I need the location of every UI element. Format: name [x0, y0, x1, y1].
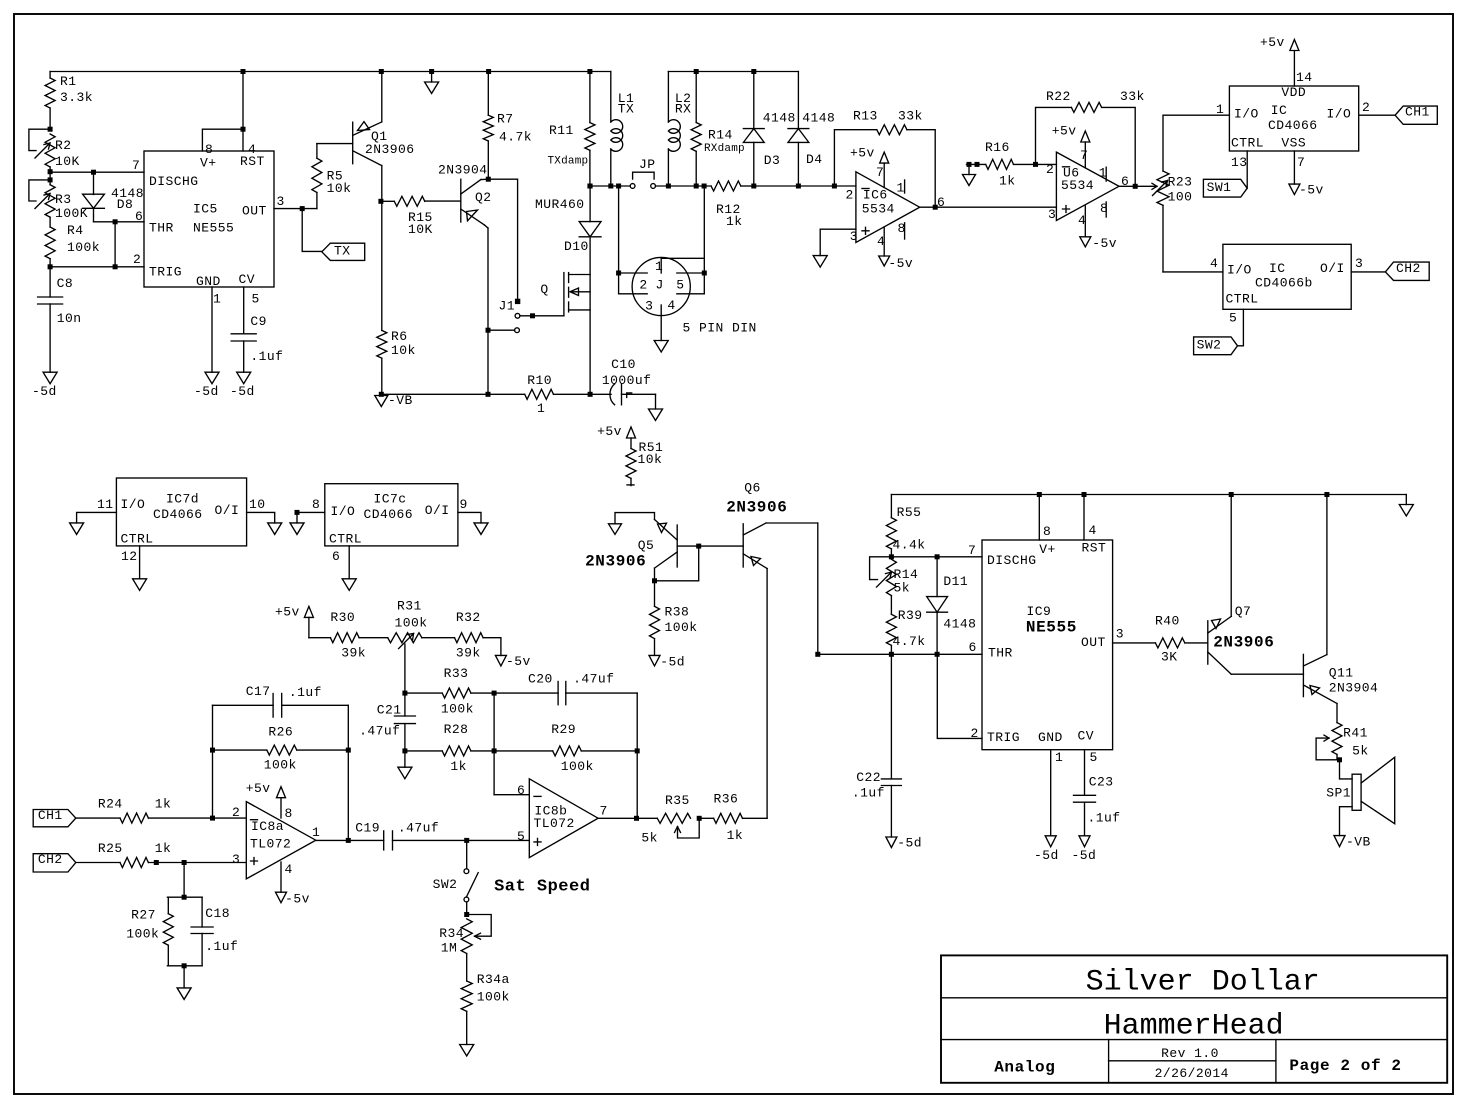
wire OUT to TX tag: [302, 209, 322, 252]
svg-text:C10: C10: [611, 357, 636, 372]
wire Q1 base: [317, 143, 353, 145]
svg-text:10k: 10k: [391, 343, 416, 358]
svg-text:4.7k: 4.7k: [499, 130, 532, 145]
resistor R1: [49, 72, 51, 79]
svg-text:C23: C23: [1089, 775, 1114, 790]
ground arrow rail right end: [1405, 495, 1407, 505]
svg-text:RX: RX: [675, 102, 692, 117]
resistor R36 1k: [699, 817, 713, 819]
IC7c pin9 wire: [458, 512, 481, 523]
svg-text:-5v: -5v: [285, 892, 310, 907]
svg-text:IC9: IC9: [1027, 604, 1052, 619]
svg-text:Q11: Q11: [1329, 666, 1354, 681]
resistor R39 4.7k: [886, 614, 896, 645]
ground -5d below C8: [43, 372, 57, 384]
wire IC5 pin4 RST to rail: [242, 72, 244, 152]
resistor R30 39k: [330, 633, 359, 643]
node D10 top: [588, 184, 593, 189]
svg-text:CH1: CH1: [38, 808, 63, 823]
svg-text:CTRL: CTRL: [329, 531, 362, 546]
svg-text:I/O: I/O: [331, 504, 356, 519]
capacitor C20 .47uf: [494, 692, 558, 694]
ground below C21: [404, 751, 406, 767]
svg-text:4: 4: [877, 234, 885, 249]
svg-text:R31: R31: [397, 599, 422, 614]
wire IC6 out: [920, 206, 1057, 208]
svg-text:2: 2: [971, 726, 979, 741]
ground IC7c pin6: [342, 579, 356, 591]
svg-text:C22: C22: [856, 770, 881, 785]
IC8a out wire: [316, 839, 384, 841]
svg-text:4: 4: [1089, 523, 1097, 538]
svg-text:I/O: I/O: [121, 497, 146, 512]
svg-text:100k: 100k: [67, 240, 100, 255]
svg-text:100k: 100k: [441, 702, 474, 717]
svg-text:CH2: CH2: [38, 852, 63, 867]
resistor R24 1k: [76, 817, 120, 819]
svg-text:C9: C9: [250, 314, 267, 329]
svg-text:3: 3: [850, 229, 858, 244]
svg-text:5: 5: [1229, 311, 1237, 326]
svg-text:R33: R33: [444, 666, 469, 681]
wire THR rail: [818, 653, 982, 655]
svg-text:THR: THR: [149, 221, 174, 236]
svg-text:3: 3: [1048, 207, 1056, 222]
svg-text:1: 1: [312, 825, 320, 840]
svg-text:2: 2: [639, 277, 647, 292]
ground -5d below R38: [649, 655, 660, 666]
node base-collector tie: [696, 544, 701, 549]
svg-text:R38: R38: [665, 605, 690, 620]
svg-text:V+: V+: [1039, 542, 1056, 557]
svg-text:5k: 5k: [1352, 744, 1369, 759]
resistor R28 1k: [405, 750, 442, 752]
ground -5d below GND: [1045, 836, 1056, 847]
svg-text:R3: R3: [55, 192, 72, 207]
potentiometer R31 100k: [388, 633, 422, 643]
svg-text:R1: R1: [60, 74, 77, 89]
svg-text:R4: R4: [67, 223, 84, 238]
svg-text:SW1: SW1: [1207, 180, 1232, 195]
U6 pin4 -5v: [1084, 206, 1086, 237]
svg-text:3: 3: [645, 299, 653, 314]
svg-text:IC: IC: [1269, 261, 1286, 276]
transistor Q2 2N3904: [460, 179, 462, 222]
wire IC5 pin8 V+: [202, 129, 243, 151]
svg-text:CD4066: CD4066: [364, 507, 414, 522]
transistor Q11 2N3904: [1302, 654, 1304, 696]
wire Q5/Q6 base: [677, 545, 743, 547]
svg-text:.1uf: .1uf: [289, 685, 322, 700]
svg-text:2: 2: [232, 805, 240, 820]
svg-text:.1uf: .1uf: [1088, 810, 1121, 825]
svg-text:TL072: TL072: [534, 816, 575, 831]
svg-text:39k: 39k: [456, 646, 481, 661]
tag SW2 (top): [1194, 337, 1238, 355]
svg-text:33k: 33k: [1120, 89, 1145, 104]
svg-text:TX: TX: [618, 102, 635, 117]
svg-text:5534: 5534: [1061, 178, 1094, 193]
potentiometer R35 5k: [657, 813, 690, 823]
node R26 right: [346, 748, 351, 753]
resistor R32 39k: [422, 637, 455, 639]
svg-text:C19: C19: [355, 821, 380, 836]
node TRIG-left: [48, 264, 53, 269]
IC6 pin1 mark: [904, 180, 906, 193]
svg-text:2: 2: [133, 252, 141, 267]
svg-text:-VB: -VB: [1346, 834, 1371, 849]
svg-text:MUR460: MUR460: [535, 197, 585, 212]
capacitor C9 .1uf: [243, 287, 245, 334]
svg-text:R27: R27: [131, 908, 156, 923]
transistor Q1 2N3906: [352, 122, 354, 164]
resistor R7: [487, 72, 489, 116]
ground below C10: [655, 394, 657, 409]
svg-text:RXdamp: RXdamp: [704, 143, 745, 155]
CD4066 pin7 -5v: [1293, 151, 1295, 184]
switch SW2 Sat Speed: [466, 843, 468, 868]
svg-text:1k: 1k: [450, 759, 467, 774]
ground -VB arrow: [375, 396, 388, 407]
svg-text:1: 1: [213, 292, 221, 307]
resistor R15: [382, 200, 395, 202]
svg-text:R13: R13: [853, 109, 878, 124]
ground Q5 emitter arrow: [615, 513, 655, 524]
transistor Q6 2N3906: [742, 524, 744, 567]
svg-text:IC6: IC6: [863, 187, 888, 202]
ground below DIN: [660, 316, 662, 341]
svg-text:CV: CV: [1078, 729, 1095, 744]
svg-text:CTRL: CTRL: [1231, 136, 1264, 151]
svg-text:8: 8: [285, 806, 293, 821]
node U6 out R22: [1133, 184, 1138, 189]
svg-text:R55: R55: [897, 505, 922, 520]
svg-text:SW2: SW2: [433, 877, 458, 892]
svg-text:3: 3: [232, 852, 240, 867]
svg-text:100k: 100k: [395, 616, 428, 631]
wire JP rail left: [590, 185, 630, 187]
ground arrow top rail: [431, 72, 433, 83]
ic CD4066b box: [1223, 244, 1351, 309]
node R31 wiper / R33: [402, 691, 407, 696]
capacitor C23 .1uf: [1084, 750, 1086, 796]
wire THR rail: [94, 221, 145, 223]
ground -5d below C9: [237, 372, 251, 384]
svg-text:-5d: -5d: [897, 835, 922, 850]
wire pin7 DISCHG: [891, 556, 982, 558]
node pin3/R27: [182, 860, 187, 865]
svg-text:.1uf: .1uf: [852, 786, 885, 801]
capacitor C18 .1uf: [201, 897, 203, 927]
IC7d pin12 wire: [139, 546, 141, 579]
svg-text:4: 4: [667, 298, 675, 313]
CD4066b pin4 wire: [1163, 271, 1223, 273]
resistor R10: [525, 389, 554, 399]
svg-text:2N3906: 2N3906: [726, 499, 787, 517]
svg-text:6: 6: [1121, 174, 1129, 189]
node D11 top: [935, 554, 940, 559]
svg-text:Q2: Q2: [475, 190, 492, 205]
diode D10 MUR460: [589, 186, 591, 222]
resistor R14 RXdamp: [695, 72, 697, 123]
speaker SP1: [1340, 760, 1353, 779]
wire Q5 collector tie: [655, 546, 699, 581]
wire IC5 OUT: [274, 208, 317, 210]
ground below R27C18: [177, 988, 191, 1000]
svg-text:5: 5: [1090, 750, 1098, 765]
svg-text:R2: R2: [55, 138, 72, 153]
svg-text:R10: R10: [527, 373, 552, 388]
svg-text:9: 9: [460, 497, 468, 512]
svg-text:3: 3: [277, 194, 285, 209]
svg-text:2: 2: [846, 187, 854, 202]
svg-text:7: 7: [1297, 155, 1305, 170]
IC6 +input ground: [820, 229, 856, 255]
node rail-gnd: [429, 69, 434, 74]
node R55-R14: [889, 554, 894, 559]
svg-text:2N3906: 2N3906: [365, 142, 415, 157]
svg-text:CH2: CH2: [1396, 261, 1421, 276]
wire feedback right riser: [347, 705, 349, 840]
node JP rail R14: [694, 184, 699, 189]
wire -VB rail: [381, 393, 524, 395]
wire R27C18 drop: [183, 863, 185, 898]
svg-text:CD4066: CD4066: [1268, 118, 1318, 133]
IC7d pin11 wire: [77, 512, 117, 523]
wire IC9 pin4: [1083, 495, 1085, 541]
svg-text:2: 2: [1046, 162, 1054, 177]
svg-text:11: 11: [97, 497, 114, 512]
resistor R22 33k feedback: [1036, 107, 1072, 164]
svg-text:+5v: +5v: [246, 781, 271, 796]
IC6 pin8 mark: [904, 223, 906, 239]
svg-text:1: 1: [1055, 750, 1063, 765]
svg-text:R14: R14: [708, 128, 733, 143]
svg-text:V+: V+: [200, 156, 217, 171]
svg-text:100k: 100k: [561, 759, 594, 774]
resistor R29 100k: [494, 750, 553, 752]
ic IC7d CD4066 box: [116, 478, 246, 546]
svg-text:D4: D4: [806, 152, 823, 167]
svg-text:OUT: OUT: [242, 203, 267, 218]
svg-text:CD4066: CD4066: [153, 507, 203, 522]
svg-text:2: 2: [1362, 100, 1370, 115]
wire DISCHG to pin7: [50, 171, 144, 173]
svg-text:NE555: NE555: [193, 221, 234, 236]
svg-text:4: 4: [285, 862, 293, 877]
wire Q2-collector to J1: [488, 179, 517, 299]
wire feedback riser: [212, 705, 214, 818]
svg-text:R23: R23: [1168, 175, 1193, 190]
node R13 branch: [832, 184, 837, 189]
svg-text:2N3904: 2N3904: [438, 162, 488, 177]
op-amp IC8b TL072: [529, 779, 598, 858]
svg-text:13: 13: [1231, 155, 1248, 170]
svg-text:1k: 1k: [726, 214, 743, 229]
svg-text:Page 2 of 2: Page 2 of 2: [1289, 1057, 1401, 1075]
svg-text:7: 7: [968, 543, 976, 558]
node JP rail D3: [751, 184, 756, 189]
svg-text:100k: 100k: [264, 758, 297, 773]
svg-text:39k: 39k: [341, 646, 366, 661]
svg-text:-5v: -5v: [506, 654, 531, 669]
ground below R34a: [460, 1045, 474, 1057]
svg-text:R28: R28: [444, 722, 469, 737]
transistor Q5 2N3906: [676, 525, 678, 567]
ic IC5 NE555 box: [144, 151, 274, 287]
svg-text:-5v: -5v: [1299, 183, 1324, 198]
node DISCHG: [48, 169, 53, 174]
svg-text:10K: 10K: [55, 154, 80, 169]
IC8b pin7 out: [598, 817, 657, 819]
svg-text:I/O: I/O: [1327, 106, 1352, 121]
svg-text:10k: 10k: [327, 181, 352, 196]
node R33-C20: [492, 691, 497, 696]
svg-text:-VB: -VB: [388, 393, 413, 408]
svg-text:5 PIN DIN: 5 PIN DIN: [683, 320, 757, 335]
diode D4 4148: [797, 72, 799, 129]
svg-text:1k: 1k: [155, 796, 172, 811]
CD4066b pin3 wire to CH2: [1351, 271, 1385, 273]
CD4066 pin14 +5v: [1293, 51, 1295, 86]
jumper JP: [630, 184, 635, 189]
svg-text:DISCHG: DISCHG: [987, 553, 1037, 568]
node THR D11: [935, 652, 940, 657]
CD4066b pin5 to SW2: [1238, 309, 1244, 346]
node R28-R29: [492, 748, 497, 753]
svg-text:14: 14: [1296, 70, 1313, 85]
resistor R16 1k: [967, 163, 986, 165]
node JP rail L2: [666, 184, 671, 189]
IC7c pin8 wire: [297, 512, 325, 523]
node D10 bottom -VB: [588, 392, 593, 397]
svg-text:R16: R16: [985, 140, 1010, 155]
inductor L2 RX: [667, 72, 669, 123]
svg-text:TXdamp: TXdamp: [548, 156, 589, 168]
svg-text:1: 1: [1216, 102, 1224, 117]
svg-text:JP: JP: [639, 157, 656, 172]
svg-text:VDD: VDD: [1281, 85, 1306, 100]
svg-text:THR: THR: [988, 646, 1013, 661]
svg-text:1k: 1k: [999, 174, 1016, 189]
svg-text:2N3906: 2N3906: [585, 553, 646, 571]
svg-text:7: 7: [132, 158, 140, 173]
svg-text:1000uf: 1000uf: [602, 373, 652, 388]
node rail-Q1: [379, 69, 384, 74]
svg-text:-5v: -5v: [888, 256, 913, 271]
ground IC7d pin10: [268, 523, 282, 535]
svg-text:SP1: SP1: [1326, 786, 1351, 801]
node pin8-pin4: [241, 127, 246, 132]
ground -5v R32: [495, 655, 506, 666]
node JP rail DIN-left drop: [616, 184, 621, 189]
svg-text:Analog: Analog: [994, 1059, 1055, 1077]
svg-text:7: 7: [600, 804, 608, 819]
svg-text:GND: GND: [1038, 730, 1063, 745]
svg-text:C21: C21: [377, 703, 402, 718]
svg-text:IC: IC: [1271, 103, 1288, 118]
svg-text:D10: D10: [564, 239, 589, 254]
resistor R38 100k: [654, 581, 656, 607]
svg-text:GND: GND: [196, 274, 221, 289]
node C21-R28: [402, 748, 407, 753]
svg-text:O/I: O/I: [1320, 261, 1345, 276]
svg-text:CH1: CH1: [1405, 105, 1430, 120]
wire JP rail to IC6: [834, 185, 856, 187]
svg-text:Rev 1.0: Rev 1.0: [1161, 1046, 1219, 1061]
svg-text:1: 1: [537, 401, 545, 416]
svg-text:O/I: O/I: [425, 503, 450, 518]
svg-text:CTRL: CTRL: [1226, 292, 1259, 307]
IC8a pin4 -5v: [280, 862, 282, 892]
svg-text:R40: R40: [1155, 614, 1180, 629]
svg-text:8: 8: [1043, 524, 1051, 539]
potentiometer R34 1M: [461, 919, 472, 954]
node JP rail R11: [587, 184, 592, 189]
svg-text:+5v: +5v: [1260, 35, 1285, 50]
wire Q6 collector drop: [817, 523, 819, 654]
svg-text:Sat Speed: Sat Speed: [494, 877, 590, 896]
ic IC7c CD4066 box: [325, 484, 458, 546]
svg-text:TX: TX: [334, 244, 351, 259]
mosfet Q MUR gate: [563, 273, 565, 316]
wire THR to TRIG: [114, 222, 116, 267]
wire D3-D4 rail: [754, 185, 835, 187]
svg-text:10n: 10n: [57, 311, 82, 326]
svg-text:100k: 100k: [126, 927, 159, 942]
tag SW1: [1203, 179, 1247, 197]
node rail-D3: [751, 69, 756, 74]
node rail pin8: [1037, 492, 1042, 497]
svg-text:100k: 100k: [477, 990, 510, 1005]
svg-text:-5d: -5d: [230, 384, 255, 399]
ground IC7d pin12: [133, 579, 147, 591]
node R1-R2: [48, 127, 53, 132]
svg-text:+5v: +5v: [850, 146, 875, 161]
svg-text:Q6: Q6: [744, 481, 761, 496]
svg-text:+5v: +5v: [597, 424, 622, 439]
svg-text:.47uf: .47uf: [359, 723, 400, 738]
ground IC7c pin9: [474, 523, 488, 535]
svg-text:2/26/2014: 2/26/2014: [1155, 1066, 1229, 1081]
svg-text:4: 4: [1078, 213, 1086, 228]
node rail pin4: [1082, 492, 1087, 497]
svg-text:D3: D3: [764, 153, 781, 168]
svg-text:6: 6: [332, 549, 340, 564]
node JP rail D4: [796, 184, 801, 189]
node R27C18 top: [182, 895, 187, 900]
node IC8a out: [346, 838, 351, 843]
svg-text:D8: D8: [117, 197, 134, 212]
svg-text:D11: D11: [943, 574, 968, 589]
node SW2-R34: [464, 912, 469, 917]
diode D11 4148: [936, 557, 938, 597]
wire Q7 collector to Q11 base: [1231, 673, 1303, 675]
node rail Q7: [1229, 492, 1234, 497]
wire R2-R3: [49, 167, 51, 185]
tag CH2 (output): [1385, 262, 1429, 280]
node R41 bottom: [1337, 757, 1342, 762]
svg-text:5k: 5k: [894, 581, 911, 596]
node JP rail L1: [608, 184, 613, 189]
svg-text:2N3906: 2N3906: [1213, 634, 1274, 652]
node Q5 collector / R38: [652, 578, 657, 583]
U6 pin1 mark: [1105, 167, 1107, 181]
svg-text:5: 5: [517, 829, 525, 844]
svg-text:RST: RST: [1082, 540, 1107, 555]
svg-text:3: 3: [1355, 256, 1363, 271]
svg-text:R34a: R34a: [477, 972, 510, 987]
